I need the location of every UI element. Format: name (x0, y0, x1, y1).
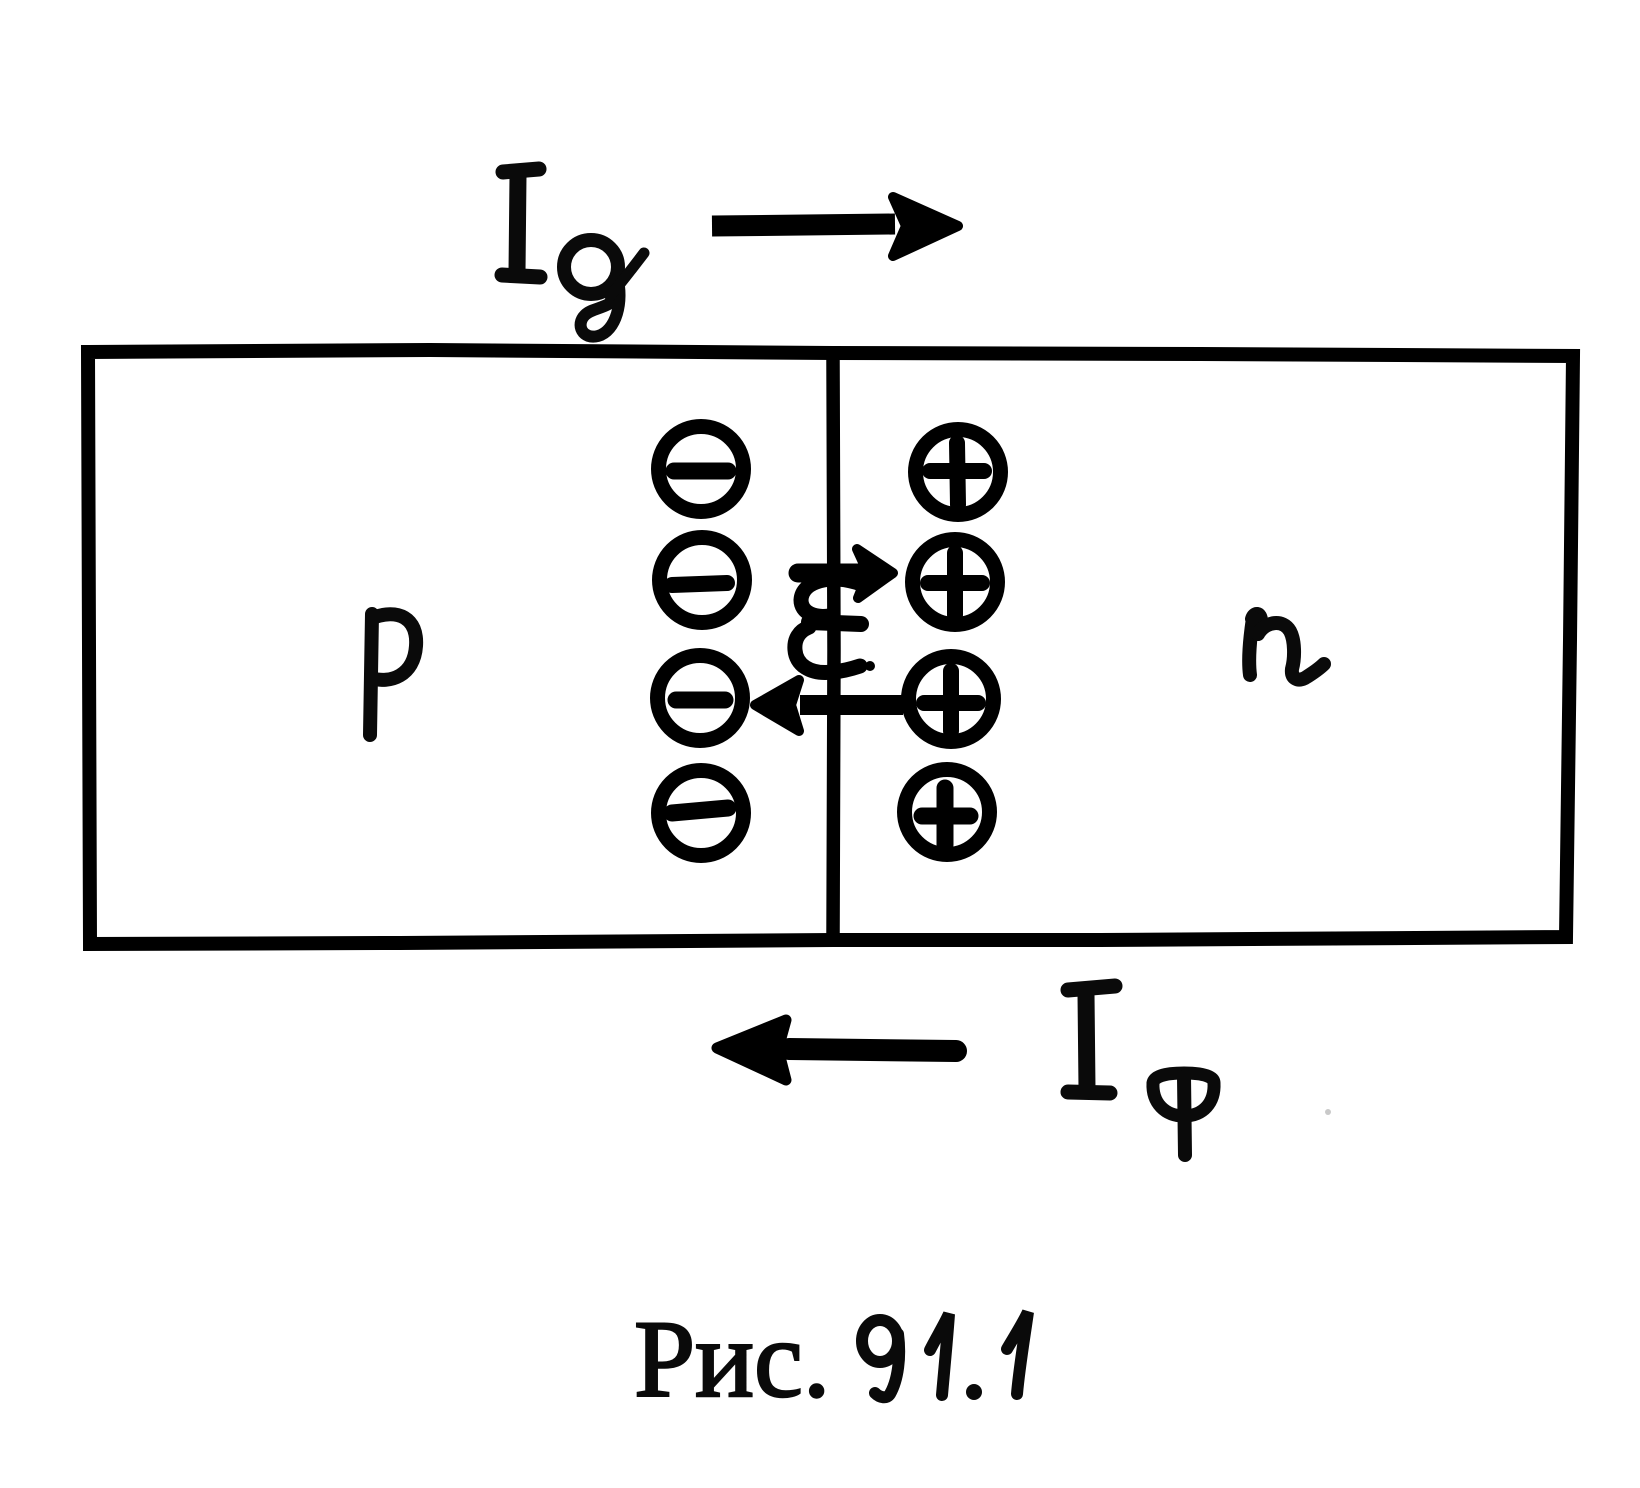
caption digit 9 (862, 1320, 899, 1397)
generation current arrow Ig (712, 197, 958, 256)
semiconductor body outline (88, 350, 1573, 944)
recombination arrow (hole to electron) (755, 680, 903, 731)
label n (1249, 614, 1324, 680)
caption digit 1 (second) (1007, 1312, 1028, 1394)
E-field arrow (798, 549, 893, 598)
faint scan speck (1325, 1109, 1331, 1115)
subscript ф of Iф (1153, 1073, 1214, 1155)
label P (370, 614, 416, 735)
ink dot near script E (865, 661, 875, 671)
script E field label (795, 579, 861, 672)
plus ion 3 (909, 657, 994, 742)
plus ion 2 (913, 540, 998, 625)
minus ion 4 (659, 771, 744, 856)
subscript g of Ig (564, 240, 644, 337)
minus ion 3 (658, 656, 743, 741)
photo current arrow Iф (717, 1020, 956, 1080)
caption digit 1 (first) (930, 1314, 949, 1395)
caption period (966, 1384, 982, 1400)
plus ion 1 (916, 430, 1001, 515)
minus ion 2 (660, 538, 745, 623)
p-n junction line (833, 358, 834, 938)
plus ion 4 (905, 770, 990, 855)
label I of Ig (502, 169, 540, 277)
label I of Iф (1068, 986, 1115, 1093)
svg-text:Рис.: Рис. (634, 1298, 830, 1420)
minus ion 1 (659, 427, 744, 512)
